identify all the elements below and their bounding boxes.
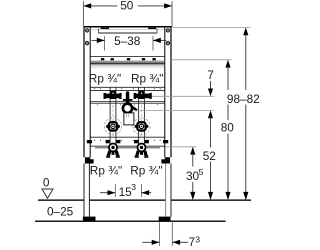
second mounting rail bbox=[90, 100, 164, 102]
rail foot bracket left bbox=[85, 157, 94, 163]
lower mounting rail bbox=[90, 136, 164, 138]
rail screw left lower bbox=[85, 42, 88, 45]
bottom fitting left legs bbox=[107, 150, 112, 156]
extension line drain right bbox=[135, 109, 214, 111]
rail screw left top bbox=[85, 29, 88, 32]
upper fitting right (Rp 3/4 elbow) bbox=[134, 94, 151, 99]
left leg bbox=[84, 164, 89, 217]
bottom fitting thin line bbox=[95, 147, 160, 149]
supply elbow left dashed circle bbox=[104, 118, 121, 135]
svg-text:3: 3 bbox=[131, 182, 136, 192]
svg-text:98–82: 98–82 bbox=[227, 92, 260, 106]
bottom fitting right center stub bbox=[140, 152, 143, 155]
bottom fitting right wings bbox=[134, 140, 138, 143]
dimension 7.3 arrow right bbox=[172, 241, 188, 243]
level zero triangle bbox=[42, 189, 53, 198]
frame top inner thin line bbox=[91, 29, 164, 31]
dimension 7.3 arrow left bbox=[142, 241, 159, 243]
svg-text:0: 0 bbox=[43, 176, 50, 190]
floor line upper bbox=[38, 199, 251, 201]
dimension 50 extension line left bbox=[82, 1, 84, 26]
drain outlet box bbox=[124, 113, 134, 125]
rail screw right top bbox=[166, 29, 169, 32]
svg-text:0–25: 0–25 bbox=[47, 205, 74, 219]
right vertical channel bbox=[138, 87, 140, 146]
extension line upper fitting right bbox=[152, 95, 214, 97]
supply elbow right dashed circle bbox=[133, 118, 150, 135]
frame right rail bbox=[170, 27, 172, 158]
bottom fitting right legs bbox=[135, 150, 140, 156]
bottom fitting left wings bbox=[106, 140, 110, 143]
bottom fitting right circle bbox=[138, 144, 146, 152]
svg-text:Rp ¾": Rp ¾" bbox=[89, 72, 121, 86]
drain pipe nubs bbox=[123, 99, 126, 101]
dimension 98-82 line bbox=[243, 28, 248, 36]
dimension 5-38 arrow left bbox=[92, 39, 105, 41]
dimension 80 floor arrow bbox=[225, 192, 230, 200]
dimension 50 extension line right bbox=[171, 1, 173, 27]
dimension 50 arrow right bbox=[164, 3, 172, 8]
dimension 30.5 floor arrow bbox=[190, 192, 195, 200]
central drain pipe bbox=[126, 91, 130, 104]
left foot plate bbox=[83, 217, 96, 221]
extension line frame top right bbox=[172, 27, 250, 29]
extension line crossbar right bbox=[172, 59, 231, 61]
svg-text:50: 50 bbox=[120, 0, 134, 13]
dimension 15 arrow right bbox=[141, 192, 151, 194]
svg-text:3: 3 bbox=[195, 234, 200, 244]
lower floor line bbox=[35, 221, 226, 223]
frame top profile bottom edge bbox=[99, 32, 158, 34]
top crossbar lower thin lines bbox=[90, 64, 164, 66]
svg-text:Rp ¾": Rp ¾" bbox=[131, 72, 163, 86]
upper mounting rail bbox=[90, 86, 164, 88]
svg-text:5–38: 5–38 bbox=[114, 34, 141, 48]
frame top edge bbox=[84, 26, 172, 28]
svg-text:7: 7 bbox=[189, 235, 196, 249]
frame top inner slot right bbox=[148, 28, 156, 30]
lower rail end bracket left bbox=[87, 140, 92, 143]
frame top inner slot left bbox=[101, 28, 109, 30]
bottom fitting left center stub bbox=[112, 152, 115, 155]
drain elbow circle bbox=[123, 104, 132, 113]
dimension 7.3 extension lines bbox=[159, 222, 161, 246]
top crossbar rail bbox=[90, 56, 164, 58]
dimension 80 line bbox=[225, 60, 230, 68]
svg-text:Rp ¾": Rp ¾" bbox=[130, 163, 162, 177]
extension line lower rail right bbox=[166, 146, 197, 148]
dimension 98-82 floor arrow bbox=[243, 192, 248, 200]
upper fitting left (Rp 3/4 elbow) bbox=[104, 94, 121, 99]
dimension 5-38 arrow right bbox=[153, 39, 166, 41]
svg-text:30: 30 bbox=[186, 169, 200, 183]
bottom fitting left circle bbox=[109, 144, 117, 152]
lower rail end bracket right bbox=[163, 140, 168, 143]
right leg bbox=[166, 164, 171, 217]
dimension 50 line bbox=[83, 5, 117, 7]
svg-text:5: 5 bbox=[199, 167, 204, 177]
dimension 52 line bbox=[208, 110, 213, 118]
dimension 52 floor arrow bbox=[208, 192, 213, 200]
dimension 15 arrow left bbox=[100, 192, 115, 194]
svg-text:Rp ¾": Rp ¾" bbox=[90, 163, 122, 177]
rail foot bracket right bbox=[161, 157, 170, 163]
supply elbow left body bbox=[109, 122, 117, 130]
dimension 5-38 tick right bbox=[152, 36, 154, 51]
dimension 30.5 line bbox=[190, 147, 195, 155]
dimension 15 ticks bbox=[114, 184, 116, 197]
supply elbow right body bbox=[137, 122, 145, 130]
dimension 5-38 tick left bbox=[104, 36, 106, 51]
right foot plate bbox=[159, 217, 171, 221]
drain diagonal stub bbox=[131, 106, 137, 110]
svg-text:52: 52 bbox=[203, 149, 216, 163]
rail screw right lower bbox=[166, 42, 169, 45]
svg-text:7: 7 bbox=[207, 68, 214, 82]
dimension 7 stub and arrow bbox=[210, 81, 212, 89]
left vertical channel bbox=[109, 87, 111, 146]
dimension 50 arrow left bbox=[83, 3, 91, 8]
frame left rail bbox=[83, 27, 85, 158]
svg-text:15: 15 bbox=[119, 185, 133, 199]
frame top profile end ticks bbox=[98, 29, 100, 34]
top crossbar body bbox=[90, 61, 164, 63]
svg-text:80: 80 bbox=[221, 121, 235, 135]
